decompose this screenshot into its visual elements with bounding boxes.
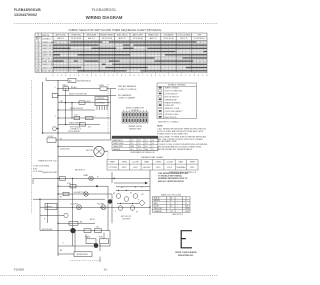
svg-text:1: 1	[130, 42, 131, 44]
motor winding cluster wires	[149, 170, 151, 215]
centrifugal switch S3	[86, 239, 96, 244]
svg-text:9: 9	[116, 42, 117, 44]
svg-text:2: 2	[189, 75, 190, 77]
svg-text:CYCLING: CYCLING	[70, 204, 79, 206]
svg-text:BROKEN BELT: BROKEN BELT	[77, 254, 89, 256]
thermostat chart table	[107, 160, 198, 171]
svg-text:CLOSE: CLOSE	[166, 162, 173, 164]
belt switch S4	[74, 252, 92, 257]
wire run 186	[58, 185, 108, 187]
wire run bottom dashed	[70, 260, 100, 262]
svg-text:250 F: 250 F	[156, 167, 162, 169]
svg-text:DOOR: DOOR	[48, 136, 54, 138]
svg-text:HI-LIMIT: HI-LIMIT	[143, 167, 151, 169]
svg-text:RESISTANCE IN OHMS ±10%: RESISTANCE IN OHMS ±10%	[130, 151, 155, 154]
legend rows	[159, 87, 184, 119]
svg-text:3: 3	[108, 75, 109, 77]
svg-text:920: 920	[138, 146, 141, 148]
svg-text:0: 0	[52, 75, 53, 77]
winding W2	[124, 197, 129, 202]
chart corner headers	[35, 36, 40, 40]
svg-text:INDUSTRIES INC.: INDUSTRIES INC.	[178, 255, 194, 257]
svg-text:5: 5	[74, 75, 75, 77]
svg-text:BUZZER BK-W: BUZZER BK-W	[78, 81, 91, 83]
svg-text:FABRIC SELECTOR SWITCH AND TIM: FABRIC SELECTOR SWITCH AND TIMER SEQUENC…	[69, 28, 162, 32]
svg-text:8: 8	[179, 42, 180, 44]
svg-text:3.0: 3.0	[145, 146, 148, 148]
svg-text:9: 9	[91, 75, 92, 77]
svg-text:7: 7	[172, 42, 173, 44]
top fold dashed rule	[14, 23, 218, 25]
svg-text:FIELD SPLICE: FIELD SPLICE	[165, 117, 178, 119]
svg-text:GROUND CONN: GROUND CONN	[165, 114, 179, 116]
svg-text:DOOR SW BU: DOOR SW BU	[68, 131, 80, 133]
svg-text:WHT/BLK HARNESS: WHT/BLK HARNESS	[118, 85, 137, 88]
svg-text:WIRE NUT CONN: WIRE NUT CONN	[165, 108, 180, 110]
svg-text:6: 6	[164, 75, 165, 77]
svg-text:4: 4	[81, 42, 82, 44]
logo caption	[175, 251, 197, 257]
selector switch S1	[52, 93, 58, 97]
timer contact T1	[63, 87, 69, 91]
svg-text:N W: N W	[33, 168, 37, 170]
svg-text:7: 7	[125, 75, 126, 77]
svg-text:6: 6	[165, 42, 166, 44]
svg-text:L1: L1	[185, 198, 187, 200]
svg-text:DRYNESS: DRYNESS	[97, 102, 106, 104]
chart fine column lines	[57, 40, 204, 72]
svg-text:3: 3	[55, 94, 56, 96]
header model number left	[14, 8, 41, 17]
svg-text:T: T	[115, 211, 116, 213]
svg-text:BLK HARNESS: BLK HARNESS	[118, 94, 132, 97]
svg-text:TMR 2: TMR 2	[62, 85, 67, 87]
svg-text:200 F: 200 F	[167, 167, 173, 169]
svg-text:CONN TO CABINET: CONN TO CABINET	[118, 97, 136, 100]
hi-limit thermostat TH2	[101, 205, 106, 210]
svg-text:TIMER CONTACT: TIMER CONTACT	[165, 87, 181, 90]
svg-text:7.2: 7.2	[138, 143, 141, 145]
timer sequence chart table	[35, 33, 207, 72]
wire L1 run 178	[33, 177, 150, 179]
wire row 110	[58, 109, 95, 111]
svg-text:2: 2	[67, 42, 68, 44]
svg-text:2.3: 2.3	[145, 143, 148, 145]
svg-text:1: 1	[100, 75, 101, 77]
svg-text:- DENOTES N.O. CONTACT: - DENOTES N.O. CONTACT	[157, 120, 179, 123]
thermal fuse F1	[100, 87, 107, 90]
motor start winding M2	[70, 228, 75, 233]
svg-text:11.4: 11.4	[138, 149, 141, 151]
svg-text:6: 6	[206, 75, 207, 77]
svg-text:FLEB43RGS1/B: FLEB43RGS1/B	[14, 8, 41, 12]
timer contact T3	[74, 116, 80, 119]
svg-text:POWER SUPPLY DISCONNECTED.: POWER SUPPLY DISCONNECTED.	[157, 133, 189, 135]
wire run 223	[58, 222, 95, 224]
chart closure marks	[53, 41, 207, 71]
svg-text:HI-LIMIT: HI-LIMIT	[97, 204, 105, 206]
svg-text:START SW BU: START SW BU	[69, 122, 82, 125]
svg-text:9: 9	[177, 75, 178, 77]
svg-text:N.O.: N.O.	[88, 127, 92, 129]
svg-text:L1 BK 120V 60HZ: L1 BK 120V 60HZ	[33, 166, 50, 168]
svg-text:SW: SW	[185, 206, 188, 208]
svg-text:L2: L2	[185, 203, 187, 205]
console dashed boundary	[31, 80, 33, 213]
svg-text:MOTOR SW: MOTOR SW	[42, 229, 52, 231]
svg-text:TO MODELS WITH SERIAL: TO MODELS WITH SERIAL	[158, 175, 183, 178]
svg-text:4: 4	[55, 116, 56, 118]
svg-text:FUSE LINK: FUSE LINK	[165, 105, 175, 107]
svg-text:FUSE: FUSE	[99, 85, 105, 87]
svg-text:MOTOR SWITCH: MOTOR SWITCH	[165, 96, 180, 98]
wire run 230	[40, 230, 110, 232]
svg-text:5: 5	[55, 87, 56, 89]
svg-text:14: 14	[104, 267, 108, 271]
svg-text:CONTACT 1-3: CONTACT 1-3	[70, 128, 81, 131]
svg-text:CONTROL: CONTROL	[97, 98, 105, 100]
svg-text:BLACK: BLACK	[154, 197, 161, 200]
wire run 199	[33, 198, 105, 200]
connector top stubs	[123, 110, 146, 112]
svg-text:9: 9	[134, 75, 135, 77]
safety thermostat TH4	[84, 192, 88, 196]
wire row 88	[58, 88, 100, 90]
svg-text:5: 5	[158, 42, 159, 44]
buzzer BZ	[46, 80, 68, 82]
svg-text:HEATER ELEMENT: HEATER ELEMENT	[165, 101, 182, 104]
wire into connector	[111, 89, 117, 96]
svg-text:0: 0	[193, 42, 194, 44]
svg-text:PART: PART	[110, 161, 116, 164]
svg-text:HEATER: HEATER	[113, 148, 121, 151]
svg-text:WHITE CONSOLIDATED: WHITE CONSOLIDATED	[175, 251, 197, 254]
svg-text:2.9: 2.9	[131, 140, 134, 142]
cycling thermostat TH1	[77, 205, 82, 210]
svg-text:FLEB43RGS1: FLEB43RGS1	[92, 8, 116, 12]
svg-text:RED: RED	[154, 203, 159, 205]
svg-text:2: 2	[61, 75, 62, 77]
svg-text:2: 2	[104, 75, 105, 77]
svg-text:196 F: 196 F	[190, 167, 196, 169]
svg-text:3: 3	[65, 75, 66, 77]
svg-text:120 F: 120 F	[133, 167, 139, 169]
svg-text:4: 4	[70, 75, 71, 77]
heater HE1	[45, 204, 57, 210]
svg-text:THERMOSTAT CHART: THERMOSTAT CHART	[141, 156, 164, 159]
wire run 246	[58, 245, 110, 247]
svg-text:TEMP: TEMP	[190, 162, 196, 164]
svg-text:6: 6	[95, 42, 96, 44]
svg-text:BK-BU: BK-BU	[71, 87, 77, 89]
svg-text:4: 4	[155, 75, 156, 77]
svg-text:140 F: 140 F	[122, 167, 128, 169]
svg-text:5: 5	[88, 42, 89, 44]
svg-text:1: 1	[142, 75, 143, 77]
svg-text:MAIN WDG: MAIN WDG	[113, 139, 123, 142]
winding W6	[140, 201, 145, 206]
door switch S2	[47, 138, 56, 142]
svg-text:6.1: 6.1	[131, 143, 134, 145]
thermostat TH3	[64, 213, 68, 217]
second bus vertical x72	[72, 178, 74, 246]
svg-text:SEE NOTE 2: SEE NOTE 2	[75, 170, 85, 172]
svg-text:8: 8	[172, 75, 173, 77]
wire row 146	[58, 146, 93, 148]
svg-text:0: 0	[138, 75, 139, 77]
svg-text:GREEN GROUND: GREEN GROUND	[42, 172, 58, 174]
winding W3	[133, 194, 138, 199]
wire run 194	[58, 193, 112, 195]
relay K1	[69, 222, 78, 226]
run capacitor C1	[100, 239, 109, 244]
cabinet bus vertical	[110, 89, 112, 140]
svg-text:CLOSE: CLOSE	[132, 162, 139, 164]
svg-text:SYMBOL LEGEND: SYMBOL LEGEND	[168, 85, 186, 87]
svg-text:0: 0	[95, 75, 96, 77]
wire row 118	[58, 117, 111, 119]
vertical interconnect x75	[74, 231, 76, 252]
notes text block	[157, 126, 208, 152]
svg-text:1: 1	[60, 42, 61, 44]
svg-text:PART: PART	[178, 161, 184, 164]
svg-text:5: 5	[117, 75, 118, 77]
cabinet dashed boundary	[107, 84, 109, 134]
svg-text:HEATER: HEATER	[46, 206, 53, 209]
left bus lower	[39, 199, 41, 230]
svg-text:TIMER MOTOR T-W: TIMER MOTOR T-W	[38, 161, 56, 163]
wire row 124	[58, 123, 100, 125]
svg-text:3450 RPM: 3450 RPM	[122, 219, 131, 221]
svg-text:WIRING DIAGRAM: WIRING DIAGRAM	[86, 15, 123, 20]
svg-text:THIS WIRING DIAGRAM APPLIES: THIS WIRING DIAGRAM APPLIES	[158, 172, 189, 175]
svg-text:4: 4	[151, 42, 152, 44]
color table rows	[154, 197, 190, 213]
svg-text:1.1: 1.1	[145, 140, 148, 142]
svg-text:0: 0	[181, 75, 182, 77]
svg-text:REPLACEMENT WIRE.: REPLACEMENT WIRE.	[157, 140, 178, 143]
extra labels bottom left	[44, 149, 99, 245]
svg-text:7: 7	[168, 75, 169, 77]
svg-text:NOTE:: NOTE:	[157, 126, 163, 128]
svg-text:3: 3	[194, 75, 195, 77]
svg-text:5: 5	[202, 75, 203, 77]
svg-text:BEFORE INSTALLING THIS APPLIAN: BEFORE INSTALLING THIS APPLIANCE.	[157, 148, 193, 151]
svg-text:1: 1	[185, 75, 186, 77]
bottom fold dashed rule	[0, 275, 218, 277]
wire aux bus	[65, 89, 67, 125]
svg-text:START: START	[85, 236, 90, 239]
symbol legend box	[157, 83, 197, 119]
svg-text:MOTOR: MOTOR	[86, 150, 93, 152]
svg-text:W: W	[60, 138, 62, 140]
svg-text:3: 3	[151, 75, 152, 77]
igniter X1	[60, 177, 66, 181]
switch annotation text	[70, 126, 92, 131]
wire row 95	[58, 94, 92, 96]
svg-text:CYCLING: CYCLING	[108, 167, 117, 169]
dryness control stubs	[97, 106, 107, 111]
svg-text:8: 8	[129, 75, 130, 77]
wire run 207	[40, 206, 150, 208]
chart left labels	[36, 41, 57, 73]
svg-text:CONN TO CONSOLE: CONN TO CONSOLE	[118, 89, 137, 91]
motor spec table	[112, 136, 158, 139]
WCI E logo	[181, 231, 192, 248]
svg-text:3: 3	[144, 42, 145, 44]
header title center	[86, 8, 123, 20]
chart first data row tick numbers	[53, 42, 201, 44]
svg-text:7: 7	[82, 75, 83, 77]
svg-text:2: 2	[137, 42, 138, 44]
svg-text:SEE NOTE 3: SEE NOTE 3	[172, 214, 183, 216]
thermal cutoff F2	[70, 185, 76, 188]
dryness control U1	[95, 97, 108, 106]
svg-text:ORANGE: ORANGE	[154, 210, 163, 213]
svg-text:T-W: T-W	[74, 115, 78, 117]
svg-text:3.4: 3.4	[138, 140, 141, 142]
wire row 133	[43, 132, 111, 134]
wiring note bold block	[158, 172, 189, 183]
svg-text:1: 1	[200, 42, 201, 44]
chart row lines	[35, 44, 207, 70]
svg-text:6: 6	[121, 75, 122, 77]
label wires to cabinet	[118, 85, 137, 99]
svg-text:8: 8	[109, 42, 110, 44]
chart row track lines	[53, 42, 207, 71]
right ladder vertical 2	[111, 194, 113, 223]
svg-text:DOOR SWITCH: DOOR SWITCH	[165, 94, 179, 96]
svg-text:9: 9	[186, 42, 187, 44]
chart bottom tick labels	[52, 72, 207, 77]
svg-text:START WDG: START WDG	[113, 142, 124, 145]
resistor R1	[108, 199, 112, 203]
svg-text:240: 240	[145, 149, 148, 151]
svg-text:R-W: R-W	[67, 183, 71, 185]
svg-text:0: 0	[53, 42, 54, 44]
svg-text:9.2: 9.2	[131, 149, 134, 151]
svg-text:HTR: HTR	[185, 211, 190, 213]
svg-text:OPEN: OPEN	[121, 162, 127, 164]
svg-text:3: 3	[74, 42, 75, 44]
svg-text:BK-R: BK-R	[87, 101, 92, 103]
winding W1	[116, 194, 121, 199]
svg-text:2: 2	[147, 75, 148, 77]
svg-text:THERMAL: THERMAL	[176, 166, 185, 169]
wire L1 bus	[57, 80, 59, 256]
motor spec rows	[113, 139, 155, 151]
svg-text:THERMOSTAT: THERMOSTAT	[165, 98, 178, 101]
chart blur wash	[53, 40, 207, 72]
wire neutral bus	[42, 82, 44, 133]
chart header labels	[56, 34, 205, 41]
connector pin fills	[123, 113, 148, 122]
svg-text:6: 6	[78, 75, 79, 77]
svg-text:PART: PART	[144, 161, 150, 164]
svg-text:1: 1	[57, 75, 58, 77]
aux vertical x72	[71, 103, 73, 118]
svg-text:131943700/02: 131943700/02	[14, 13, 37, 17]
thermostat chart cells	[108, 161, 195, 169]
wire row 103	[58, 102, 111, 104]
timer contact T2	[79, 101, 85, 104]
svg-text:4: 4	[112, 75, 113, 77]
svg-text:WIRING SIDE: WIRING SIDE	[129, 128, 142, 130]
svg-text:5: 5	[159, 75, 160, 77]
svg-text:QUICK DISCONNECT: QUICK DISCONNECT	[165, 111, 184, 113]
svg-text:TIMER MTR: TIMER MTR	[113, 146, 124, 148]
indicator light DS1	[53, 127, 57, 131]
svg-text:5400W 240V: 5400W 240V	[60, 149, 71, 151]
svg-text:OPEN: OPEN	[156, 162, 162, 164]
svg-text:880: 880	[131, 146, 134, 148]
winding W4	[118, 206, 123, 211]
svg-text:SELECTOR SW R-BK: SELECTOR SW R-BK	[69, 94, 88, 96]
svg-text:AND ALL LATER REVISIONS: AND ALL LATER REVISIONS	[158, 180, 184, 183]
svg-text:F10508: F10508	[14, 267, 24, 271]
svg-text:4: 4	[198, 75, 199, 77]
svg-text:BLUE: BLUE	[154, 206, 160, 208]
svg-text:0: 0	[123, 42, 124, 44]
svg-text:WIRE COLOR CODE: WIRE COLOR CODE	[161, 194, 182, 196]
wire color code table	[153, 197, 191, 213]
svg-text:7: 7	[102, 42, 103, 44]
svg-text:BK-W: BK-W	[90, 219, 95, 221]
drive motor M1	[94, 146, 104, 156]
right ladder vertical 1	[107, 186, 109, 230]
svg-text:8: 8	[87, 75, 88, 77]
winding W5	[130, 206, 135, 211]
svg-text:PUSH TO START SW: PUSH TO START SW	[165, 90, 183, 93]
